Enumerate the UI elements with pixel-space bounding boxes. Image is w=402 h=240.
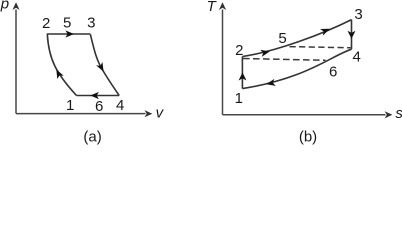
p axis arrowhead <box>12 2 19 10</box>
wire: isentropic expansion 3-4 (vertical) <box>351 20 353 50</box>
dashed line T5 = T4 <box>290 47 351 48</box>
wire: bottom constant-pressure line 4-6-1 <box>77 95 120 97</box>
arrowhead on 2-5-3 near 3 <box>320 29 330 36</box>
svg-text:1: 1 <box>66 97 74 114</box>
T axis (vertical) of diagram (b) <box>222 10 224 115</box>
svg-text:4: 4 <box>116 97 124 114</box>
svg-text:5: 5 <box>63 14 71 31</box>
compression curve 1-2 <box>47 34 76 95</box>
svg-text:2: 2 <box>235 42 243 59</box>
svg-text:6: 6 <box>95 98 103 115</box>
p axis (vertical) of diagram (a) <box>15 10 17 114</box>
svg-text:6: 6 <box>329 63 337 80</box>
arrowhead on 1-2 (upward) <box>239 73 247 81</box>
arrowhead on curve 1-2 (toward 2) <box>56 69 63 79</box>
s axis arrowhead <box>385 111 393 118</box>
constant-pressure cooling curve 4-6-1 <box>242 49 351 88</box>
svg-text:p: p <box>0 0 9 13</box>
wire: isentropic compression 1-2 (vertical) <box>241 57 243 89</box>
expansion curve 3-4 <box>90 34 119 95</box>
arrowhead on 2-5-3 line (rightward) <box>65 30 74 37</box>
arrowhead on 4-6-1 line (leftward) <box>90 92 99 99</box>
dashed line T2 = T6 <box>243 59 326 61</box>
arrowhead on 3-4 (downward) <box>348 31 356 39</box>
svg-text:2: 2 <box>42 15 50 32</box>
v axis (horizontal) of diagram (a) <box>16 113 146 115</box>
v axis arrowhead <box>145 110 153 117</box>
constant-pressure heating curve 2-5-3 <box>242 20 351 57</box>
svg-text:1: 1 <box>235 90 243 107</box>
T axis arrowhead <box>219 2 226 10</box>
svg-text:(a): (a) <box>83 128 101 145</box>
s axis (horizontal) of diagram (b) <box>223 114 386 116</box>
arrowhead on 2-5-3 near 2 <box>260 50 270 57</box>
svg-text:s: s <box>395 105 402 122</box>
svg-text:5: 5 <box>278 30 286 47</box>
wire: top constant-pressure line 2-5-3 <box>47 33 91 35</box>
arrowhead on 4-6-1 (toward 1) <box>266 79 276 86</box>
svg-text:(b): (b) <box>299 128 317 145</box>
arrowhead on curve 3-4 (toward 4) <box>96 62 103 72</box>
svg-text:3: 3 <box>354 6 362 23</box>
svg-text:4: 4 <box>353 49 361 66</box>
svg-text:3: 3 <box>87 14 95 31</box>
